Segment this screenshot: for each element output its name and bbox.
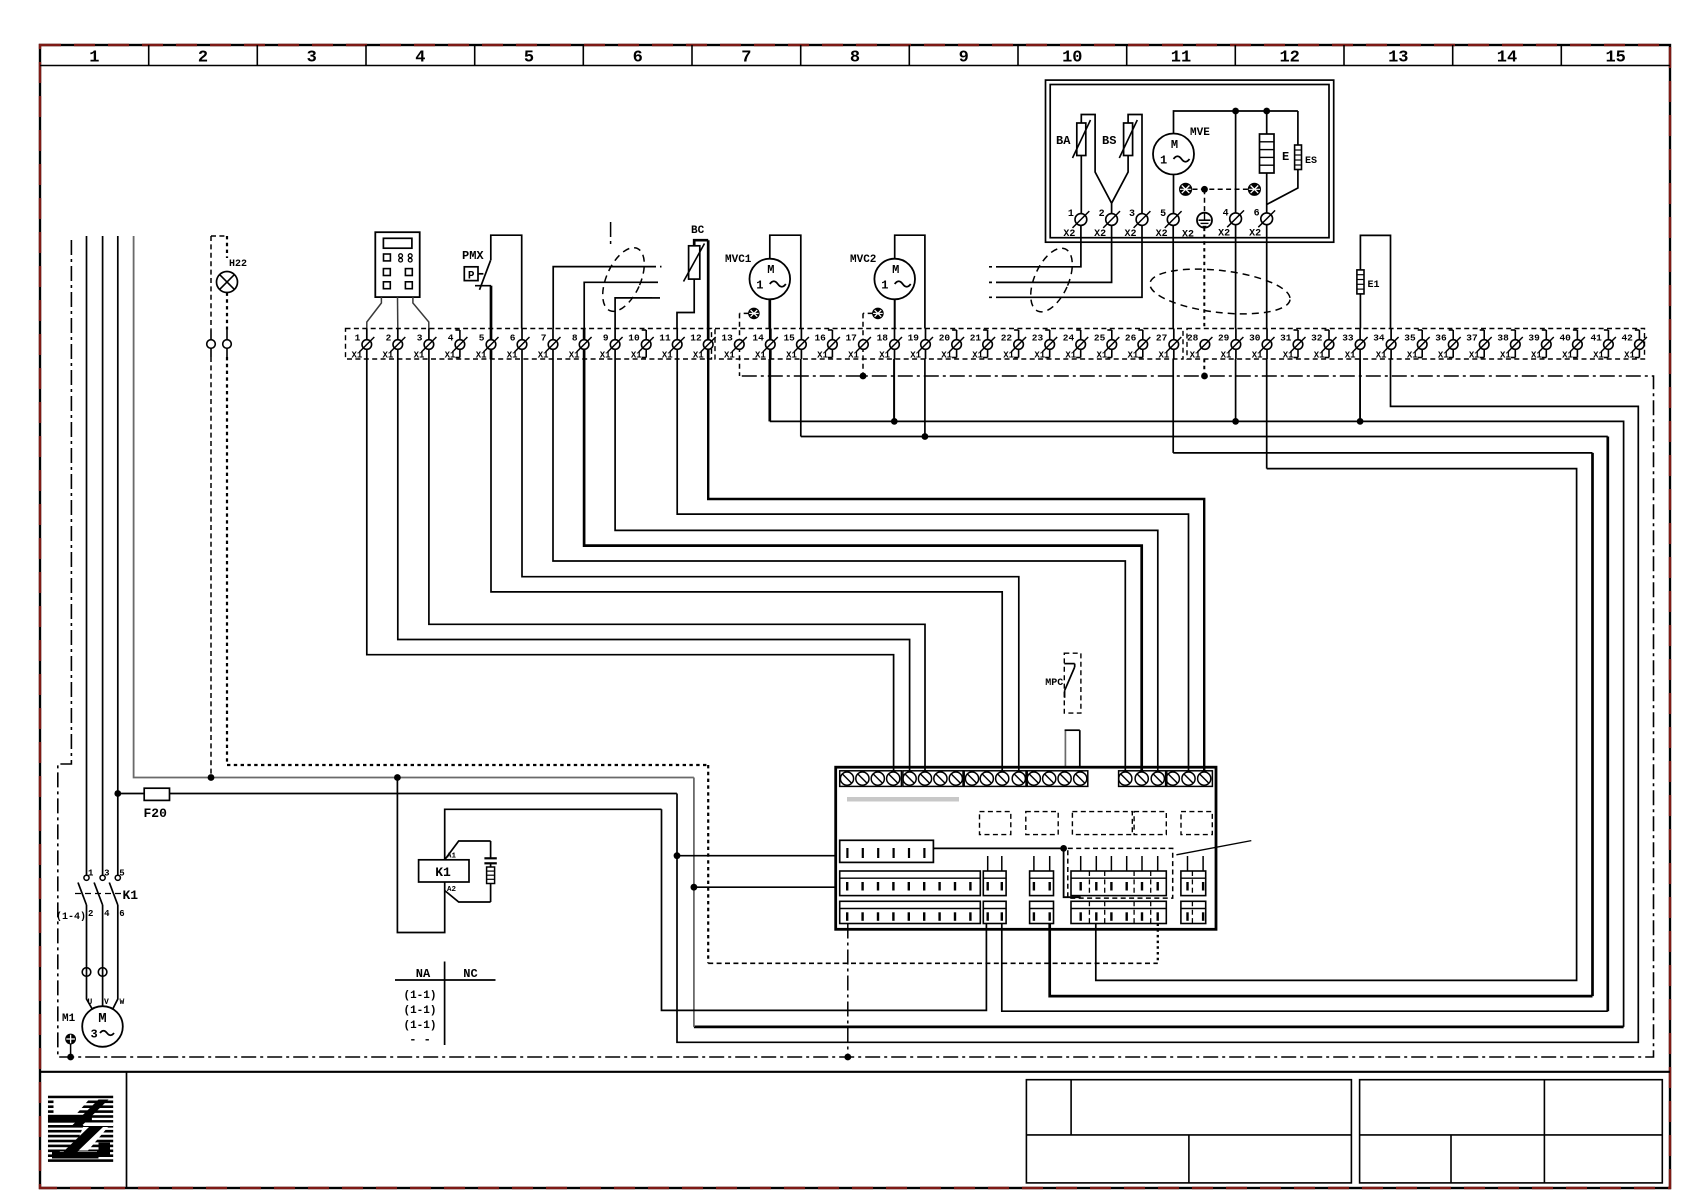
svg-text:X1: X1 (941, 351, 952, 361)
node F20 branch into board (674, 852, 681, 859)
svg-text:32: 32 (1311, 333, 1323, 344)
svg-text:X1: X1 (1438, 351, 1449, 361)
terminal X1:6 (521, 329, 523, 360)
svg-text:W: W (120, 998, 125, 1007)
svg-text:X1: X1 (1624, 351, 1635, 361)
branch into board left (row2) (691, 884, 698, 891)
X1:28 dashed continues to chassis (1203, 359, 1205, 376)
wire row1 to option connector (933, 847, 1063, 849)
svg-text:X1: X1 (600, 351, 611, 361)
title block right boxes (1026, 1080, 1351, 1183)
net MVE / X1:27 to board (1172, 359, 1174, 453)
terminal X2:4 (1230, 213, 1242, 225)
cable run t9 (615, 298, 652, 329)
svg-text:X1: X1 (662, 351, 673, 361)
chassis earth boundary (dash-dot) (58, 240, 1654, 1057)
terminal X1:32 (1328, 330, 1330, 358)
terminal X1:42 (1638, 330, 1640, 358)
svg-text:X2: X2 (1124, 229, 1136, 240)
terminal X1:33 (1359, 329, 1361, 360)
svg-text:M: M (98, 1011, 106, 1027)
terminal X1:4 (459, 330, 461, 358)
svg-text:28: 28 (1187, 333, 1199, 344)
terminal X1:8 (583, 329, 586, 360)
svg-text:X1: X1 (382, 351, 393, 361)
terminal X1:19 (925, 329, 927, 360)
svg-text:11: 11 (1171, 49, 1191, 68)
svg-text:10: 10 (628, 333, 640, 344)
svg-text:BS: BS (1102, 134, 1116, 148)
svg-text:4: 4 (104, 909, 110, 919)
title block frame (40, 1071, 1670, 1073)
coil A1 wiring (445, 841, 491, 860)
X2:5 wire to X1:27 (1172, 225, 1174, 328)
board earth dash-dot to chassis (847, 924, 849, 1058)
terminal X1:21 (987, 330, 989, 358)
svg-text:X1: X1 (755, 351, 766, 361)
svg-text:X1: X1 (879, 351, 890, 361)
svg-text:X1: X1 (972, 351, 983, 361)
svg-text:M: M (1171, 138, 1178, 152)
svg-text:1: 1 (1068, 209, 1074, 220)
board top terminal blocks (840, 771, 902, 787)
connector row 1 (840, 840, 934, 862)
sensor ES (1295, 145, 1302, 170)
svg-text:12: 12 (1279, 49, 1299, 68)
display control unit (375, 232, 419, 297)
svg-text:2: 2 (198, 49, 208, 68)
terminal X1:28 (1200, 340, 1210, 350)
svg-text:MVC2: MVC2 (850, 254, 876, 266)
svg-text:1: 1 (355, 333, 361, 344)
terminal X1:2 (397, 329, 399, 360)
node (1232, 108, 1239, 115)
MVC2 earth symbol + dashed PE (873, 308, 883, 318)
svg-text:X1: X1 (1221, 351, 1232, 361)
svg-text:X1: X1 (910, 351, 921, 361)
shield ellipse X2 cable left (1022, 242, 1081, 318)
MVC1 earth symbol + dashed PE (749, 308, 759, 318)
shield ellipse X2 cable main (1148, 263, 1293, 321)
svg-text:8: 8 (850, 49, 860, 68)
net E1/X1:34 to F20 (677, 359, 1638, 1042)
wire L3 phase (117, 236, 119, 875)
svg-text:39: 39 (1528, 333, 1540, 344)
node (1263, 108, 1270, 115)
svg-text:37: 37 (1466, 333, 1478, 344)
X2:6 wire to X1:30 (1266, 225, 1268, 329)
wire L1 phase (86, 236, 88, 875)
svg-text:X1: X1 (1500, 351, 1511, 361)
svg-text:38: 38 (1497, 333, 1509, 344)
svg-text:M1: M1 (62, 1013, 76, 1025)
X2:PE dashed to X1:28 (1203, 228, 1205, 329)
terminal X1:12 (707, 329, 710, 360)
svg-text:9: 9 (959, 49, 969, 68)
svg-text:8: 8 (572, 333, 578, 344)
terminal X2:3 (1136, 214, 1148, 226)
svg-text:13: 13 (721, 333, 733, 344)
svg-text:X1: X1 (1283, 351, 1294, 361)
board silkscreen band (847, 797, 959, 802)
wire N neutral (grey) (134, 236, 694, 778)
relay coil K1 (419, 860, 469, 882)
svg-text:5: 5 (119, 869, 124, 879)
motor MVE (1153, 134, 1194, 175)
X2:2 cable (1004, 225, 1112, 282)
svg-text:X2: X2 (1182, 230, 1194, 241)
svg-text:22: 22 (1001, 333, 1013, 344)
svg-text:27: 27 (1156, 333, 1168, 344)
svg-text:NA: NA (416, 967, 431, 981)
terminal X2:PE earth (1197, 213, 1212, 228)
contactor K1 main contacts (84, 875, 89, 880)
svg-text:10: 10 (1062, 49, 1082, 68)
svg-text:X2: X2 (1218, 228, 1230, 239)
svg-text:X1: X1 (538, 351, 549, 361)
terminal X1:13 (735, 340, 745, 350)
coil A2 wiring (444, 882, 446, 891)
svg-text:K1: K1 (435, 865, 451, 880)
X2:4 wire to X1:29 (1235, 225, 1237, 329)
terminal X1:14 (769, 329, 772, 360)
terminal X1:31 (1297, 330, 1299, 358)
terminal X1:37 (1483, 330, 1485, 358)
wire X1:2 to board (398, 359, 910, 771)
svg-text:M: M (892, 263, 899, 277)
svg-text:X1: X1 (693, 351, 704, 361)
svg-text:MVC1: MVC1 (725, 254, 752, 266)
svg-text:X1: X1 (1562, 351, 1573, 361)
terminal X1:27 (1173, 329, 1175, 360)
cable run t8 (584, 282, 650, 328)
svg-text:X1: X1 (1158, 351, 1169, 361)
svg-text:X1: X1 (1096, 351, 1107, 361)
svg-text:26: 26 (1125, 333, 1137, 344)
terminal X2:2 (1106, 214, 1118, 226)
svg-text:X1: X1 (476, 351, 487, 361)
svg-text:14: 14 (1497, 49, 1517, 68)
svg-text:(1-1): (1-1) (403, 1020, 436, 1032)
motor MVC2 (874, 259, 915, 300)
shield ellipse MVC cables (610, 222, 612, 248)
svg-text:X1: X1 (1593, 351, 1604, 361)
wire X1:9 to board (615, 359, 1158, 771)
net K1:A1 to board (662, 809, 987, 1010)
terminal X1:18 (894, 329, 896, 360)
terminal X1:17 (859, 340, 869, 350)
wire X1:8 to board (584, 359, 1142, 771)
svg-text:7: 7 (741, 49, 751, 68)
terminal X1:16 (831, 330, 833, 358)
wire X1:12 to board (708, 359, 1204, 771)
terminal strip X1 (1-42) (346, 329, 712, 360)
svg-text:36: 36 (1435, 333, 1447, 344)
svg-text:X1: X1 (786, 351, 797, 361)
terminal X1:7 (552, 329, 554, 360)
svg-text:PMX: PMX (462, 249, 484, 263)
lamp H22 (211, 235, 227, 237)
svg-text:3: 3 (417, 333, 423, 344)
svg-text:H22: H22 (229, 259, 247, 270)
M1 earth symbol (66, 1034, 76, 1044)
svg-text:ES: ES (1305, 156, 1317, 167)
svg-text:23: 23 (1032, 333, 1044, 344)
svg-text:34: 34 (1373, 333, 1385, 344)
svg-text:6: 6 (119, 909, 124, 919)
svg-text:15: 15 (1605, 49, 1625, 68)
wire X1:6 to board (522, 359, 1019, 771)
terminal X1:30 (1266, 329, 1268, 360)
node (1201, 186, 1208, 193)
svg-text:19: 19 (908, 333, 920, 344)
wire X1:5 to board (491, 359, 1002, 771)
svg-text:X1: X1 (1376, 351, 1387, 361)
svg-text:K1: K1 (123, 888, 139, 903)
svg-text:3: 3 (91, 1028, 98, 1042)
svg-text:X1: X1 (724, 351, 735, 361)
MPC wires to board (1064, 730, 1066, 766)
dashed option dividers in connectors (1088, 871, 1090, 896)
callout leader line (1176, 841, 1251, 855)
svg-text:P: P (468, 271, 475, 283)
svg-text:X1: X1 (1034, 351, 1045, 361)
terminal X1:40 (1576, 330, 1578, 358)
svg-text:6: 6 (1254, 208, 1260, 219)
svg-text:1: 1 (88, 869, 94, 879)
wire X1:1 to board (367, 359, 894, 771)
svg-text:4: 4 (1223, 208, 1229, 219)
cable run t7 (553, 267, 648, 329)
X1:29 stub to net (1235, 359, 1237, 421)
svg-text:2: 2 (88, 909, 93, 919)
svg-text:40: 40 (1559, 333, 1571, 344)
terminal X1:24 (1080, 330, 1082, 358)
svg-text:13: 13 (1388, 49, 1408, 68)
svg-text:1: 1 (89, 49, 99, 68)
svg-text:BC: BC (691, 225, 705, 237)
svg-text:E1: E1 (1368, 280, 1380, 291)
svg-text:X2: X2 (1094, 229, 1106, 240)
dashed option connector overlay (1068, 848, 1173, 898)
terminal X1:26 (1142, 330, 1144, 358)
table NA/NC (444, 962, 446, 1046)
wire X1:7 to board (553, 359, 1125, 771)
option boxes (dashed) (980, 812, 1011, 835)
net MVC1 / X1:14-29-33 to neutral (768, 359, 771, 421)
svg-text:2: 2 (386, 333, 392, 344)
F20 wire corner (675, 793, 678, 795)
svg-text:17: 17 (845, 333, 857, 344)
terminal X1:5 (490, 329, 493, 360)
net X1:30 to board (1266, 359, 1268, 469)
svg-text:5: 5 (1160, 209, 1166, 220)
net MVC2 / X1:15-19 to board (800, 359, 802, 437)
svg-text:42: 42 (1621, 333, 1633, 344)
svg-text:25: 25 (1094, 333, 1106, 344)
svg-text:29: 29 (1218, 333, 1230, 344)
X1:33 stub to net (1359, 359, 1361, 421)
H22 plug contacts (210, 330, 212, 340)
terminal X1:25 (1111, 330, 1113, 358)
wire X1:11 to board (677, 359, 1188, 771)
svg-text:MPC: MPC (1045, 678, 1063, 689)
svg-text:35: 35 (1404, 333, 1416, 344)
svg-text:6: 6 (633, 49, 643, 68)
terminal X1:34 (1390, 329, 1392, 360)
svg-text:- -: - - (409, 1033, 431, 1047)
terminal X1:3 (428, 329, 430, 360)
svg-text:(1-1): (1-1) (403, 990, 436, 1002)
svg-text:41: 41 (1590, 333, 1602, 344)
terminal X1:23 (1049, 330, 1051, 358)
svg-text:X1: X1 (414, 351, 425, 361)
svg-text:3: 3 (1129, 209, 1135, 220)
svg-text:X1: X1 (351, 351, 362, 361)
terminal X1:22 (1018, 330, 1020, 358)
snubber RC (490, 841, 492, 858)
svg-text:(1-1): (1-1) (403, 1005, 436, 1017)
terminal X2:6 (1261, 213, 1273, 225)
terminal X1:1 (366, 329, 368, 360)
terminal X2:5 (1167, 214, 1179, 226)
terminal X1:41 (1607, 330, 1609, 358)
svg-text:24: 24 (1063, 333, 1075, 344)
X2:1 cable (1004, 225, 1081, 266)
wire L2 phase (102, 236, 104, 875)
svg-text:12: 12 (690, 333, 702, 344)
svg-text:14: 14 (752, 333, 764, 344)
svg-text:X1: X1 (1345, 351, 1356, 361)
svg-text:X1: X1 (1190, 351, 1201, 361)
terminal X1:38 (1514, 330, 1516, 358)
connector rows 2 and 3 (840, 871, 981, 896)
svg-text:20: 20 (939, 333, 951, 344)
svg-text:33: 33 (1342, 333, 1354, 344)
svg-text:X1: X1 (569, 351, 580, 361)
terminal X2:1 (1075, 214, 1087, 226)
svg-text:1: 1 (881, 279, 888, 293)
svg-text:X2: X2 (1063, 229, 1075, 240)
svg-text:MVE: MVE (1190, 127, 1210, 139)
terminal X1:20 (956, 330, 958, 358)
terminal X1:9 (614, 329, 616, 360)
X1:18 stub to net (893, 359, 895, 421)
svg-text:30: 30 (1249, 333, 1261, 344)
svg-text:X1: X1 (507, 351, 518, 361)
svg-text:9: 9 (603, 333, 609, 344)
box enclosure X2 unit (1046, 80, 1334, 242)
heater E (1260, 134, 1275, 173)
M1 plug contacts (86, 905, 88, 996)
heater E1 (1357, 270, 1364, 294)
svg-text:4: 4 (415, 49, 425, 68)
svg-text:X1: X1 (1003, 351, 1014, 361)
node on neutral line (208, 774, 215, 781)
svg-text:1: 1 (1160, 154, 1167, 168)
X1:33 lower stub (1359, 359, 1361, 421)
svg-text:4: 4 (448, 333, 454, 344)
svg-text:F20: F20 (144, 806, 168, 821)
svg-text:21: 21 (970, 333, 982, 344)
svg-text:X1: X1 (1252, 351, 1263, 361)
svg-text:X1: X1 (1531, 351, 1542, 361)
svg-text:11: 11 (659, 333, 671, 344)
svg-text:X1: X1 (1407, 351, 1418, 361)
control board outline (836, 767, 1216, 929)
svg-text:16: 16 (814, 333, 826, 344)
fuse F20 (118, 793, 677, 795)
svg-text:(1-4): (1-4) (56, 911, 86, 923)
column header band (40, 65, 1670, 67)
svg-text:X1: X1 (1469, 351, 1480, 361)
svg-text:2: 2 (1099, 209, 1105, 220)
svg-text:18: 18 (877, 333, 889, 344)
svg-text:5: 5 (524, 49, 534, 68)
terminal X1:10 (645, 330, 647, 358)
svg-text:3: 3 (307, 49, 317, 68)
svg-text:X1: X1 (1127, 351, 1138, 361)
terminal X1:29 (1235, 329, 1237, 360)
H22 wires down (210, 357, 212, 774)
switch MPC (remote, dashed) (1064, 653, 1081, 713)
dashed option wire from board (1157, 924, 1159, 964)
svg-text:X1: X1 (445, 351, 456, 361)
svg-text:5: 5 (479, 333, 485, 344)
terminal X1:15 (800, 329, 802, 360)
svg-text:3: 3 (104, 869, 109, 879)
svg-text:E: E (1282, 150, 1289, 164)
terminal X1:36 (1452, 330, 1454, 358)
PE symbols inside box (1180, 183, 1192, 195)
svg-text:31: 31 (1280, 333, 1292, 344)
svg-text:1: 1 (756, 279, 763, 293)
display wires to X1 1-3 (367, 297, 382, 328)
wire X1:3 to board (429, 359, 925, 771)
svg-text:X1: X1 (848, 351, 859, 361)
svg-text:15: 15 (783, 333, 795, 344)
svg-text:X1: X1 (1065, 351, 1076, 361)
X2:3 cable (1004, 225, 1142, 297)
svg-text:BA: BA (1056, 134, 1071, 148)
svg-text:X1: X1 (631, 351, 642, 361)
terminal X1:11 (676, 329, 678, 360)
svg-text:X1: X1 (817, 351, 828, 361)
svg-text:7: 7 (541, 333, 547, 344)
motor MVC1 (750, 259, 791, 300)
terminal X1:35 (1421, 330, 1423, 358)
svg-text:X2: X2 (1249, 228, 1261, 239)
svg-text:X2: X2 (1156, 229, 1168, 240)
svg-text:X1: X1 (1314, 351, 1325, 361)
terminal X1:39 (1545, 330, 1547, 358)
svg-text:M: M (767, 263, 774, 277)
svg-text:NC: NC (463, 967, 477, 981)
svg-text:6: 6 (510, 333, 516, 344)
